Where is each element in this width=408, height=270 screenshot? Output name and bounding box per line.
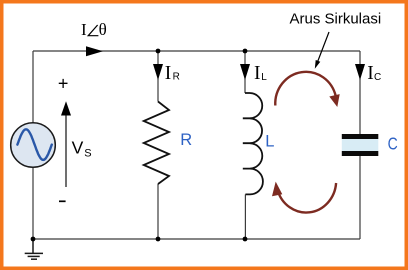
svg-text:Arus Sirkulasi: Arus Sirkulasi	[290, 10, 382, 27]
svg-text:C: C	[388, 135, 398, 154]
svg-text:L: L	[261, 72, 267, 83]
svg-text:L: L	[265, 132, 274, 150]
svg-text:I: I	[81, 20, 87, 39]
svg-text:I: I	[367, 63, 374, 84]
svg-text:+: +	[58, 74, 69, 94]
svg-text:V: V	[72, 138, 84, 158]
svg-text:S: S	[84, 147, 91, 159]
svg-text:I: I	[165, 63, 172, 84]
svg-text:R: R	[173, 71, 180, 82]
svg-text:C: C	[374, 72, 381, 83]
svg-text:R: R	[180, 131, 192, 149]
svg-text:I: I	[254, 63, 261, 84]
svg-text:θ: θ	[99, 20, 107, 39]
